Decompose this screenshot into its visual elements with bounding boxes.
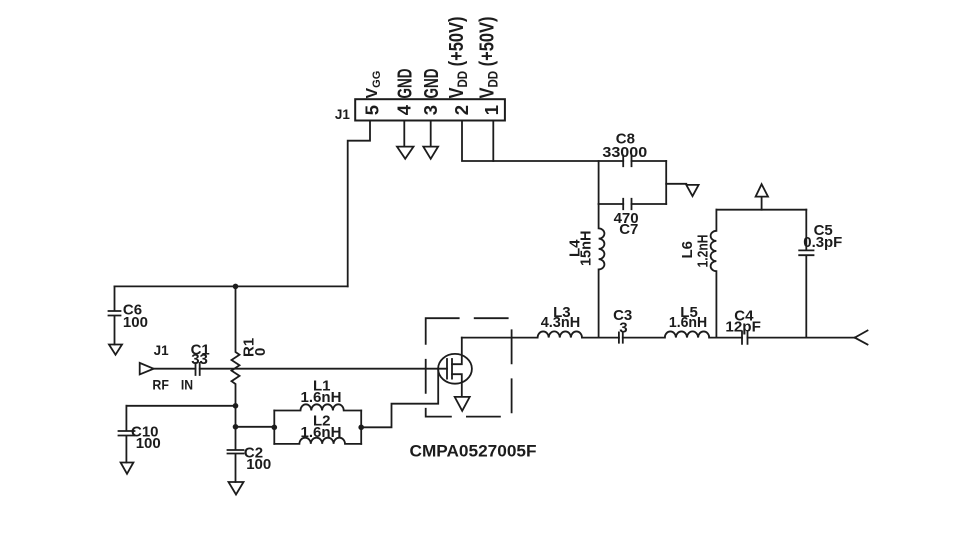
svg-text:1.6nH: 1.6nH (669, 314, 707, 331)
ground pin 3 (423, 121, 438, 159)
ground pin 4 (397, 121, 414, 159)
capacitor C8 (623, 155, 631, 166)
node R1 bottom junction (233, 403, 239, 409)
wire L1L2 right node to gate (361, 369, 438, 428)
wire VGG rail (115, 285, 348, 287)
wire pin5 to VGG rail (348, 121, 370, 287)
transistor Q1 source lead (452, 374, 462, 396)
ground transistor source (455, 397, 470, 411)
capacitor C2 (228, 427, 244, 482)
inductor L6 (711, 210, 717, 338)
wire node to L1L2 box (236, 426, 275, 428)
wire RF input line (154, 368, 447, 370)
capacitor C4 (742, 331, 748, 344)
svg-text:VDD (+50V): VDD (+50V) (446, 17, 470, 99)
svg-text:L6: L6 (679, 241, 696, 259)
connector J1 RF IN (140, 363, 154, 375)
svg-text:3: 3 (619, 319, 627, 336)
node VGG/R1 junction (233, 284, 239, 290)
svg-text:J1: J1 (335, 107, 351, 122)
wire L1L2 box left side (273, 411, 275, 444)
svg-text:VDD (+50V): VDD (+50V) (477, 17, 501, 99)
svg-text:15nH: 15nH (578, 231, 595, 266)
svg-text:2: 2 (451, 105, 472, 115)
capacitor C10 (119, 406, 135, 463)
inductor L4 (599, 204, 605, 338)
svg-text:0.3pF: 0.3pF (803, 234, 842, 251)
node L1L2 left (272, 425, 278, 431)
wire L1L2 box right side (360, 411, 362, 444)
wire pin 2 to VDD rail (462, 121, 623, 162)
wire C8 right top rail (632, 160, 667, 162)
svg-text:1.6nH: 1.6nH (301, 389, 342, 406)
ground top triangle (756, 184, 768, 210)
capacitor C6 (109, 286, 121, 344)
wire C8/C7 left side (598, 161, 600, 204)
svg-text:IN: IN (181, 377, 193, 393)
dashed package outline CMPA0527005F (426, 318, 512, 416)
svg-text:4.3nH: 4.3nH (541, 314, 581, 331)
svg-text:1.6nH: 1.6nH (301, 424, 342, 441)
svg-text:VGG: VGG (364, 71, 383, 99)
svg-text:12pF: 12pF (725, 318, 761, 335)
svg-text:GND: GND (421, 69, 443, 99)
connector J1 body (355, 99, 505, 120)
ground C10 (121, 463, 134, 474)
inductor L1 (274, 404, 361, 410)
svg-text:3: 3 (420, 105, 441, 115)
svg-text:0: 0 (252, 348, 269, 356)
wire C8/C7 right side (665, 161, 667, 204)
svg-text:100: 100 (123, 314, 148, 331)
capacitor C5 (799, 210, 813, 338)
capacitor C3 (619, 332, 623, 342)
resistor R1 (232, 286, 240, 405)
wire L6/C5 top rail (716, 209, 806, 211)
ground C6 (109, 345, 122, 355)
capacitor C7 (623, 199, 631, 209)
wire R1 node down (235, 406, 237, 427)
wire pin 1 drop (492, 121, 494, 162)
wire main output line (462, 337, 855, 339)
inductor L2 (274, 438, 361, 444)
svg-text:CMPA0527005F: CMPA0527005F (410, 441, 537, 460)
svg-text:GND: GND (395, 69, 417, 99)
inductor L3 (538, 331, 582, 337)
wire gnd stub C8/C7 (666, 183, 686, 185)
inductor L5 (665, 331, 709, 337)
transistor Q1 circle (438, 354, 472, 384)
svg-text:100: 100 (246, 456, 271, 473)
svg-text:33: 33 (191, 351, 208, 368)
capacitor C1 (196, 363, 200, 375)
svg-text:J1: J1 (154, 343, 170, 358)
svg-text:4: 4 (394, 104, 415, 115)
svg-text:RF: RF (152, 377, 169, 393)
ground C2 (229, 482, 244, 495)
transistor Q1 channel bar (451, 359, 453, 379)
svg-text:5: 5 (361, 105, 382, 115)
svg-text:33000: 33000 (602, 144, 647, 161)
transistor Q1 gate bar (446, 359, 448, 379)
wire C7 bottom rail (599, 203, 667, 205)
ground C8/C7 (686, 185, 698, 196)
svg-text:C7: C7 (619, 221, 638, 238)
transistor Q1 drain lead (452, 338, 462, 365)
svg-text:100: 100 (136, 435, 161, 452)
svg-text:1.2nH: 1.2nH (695, 235, 712, 268)
node L1L2 right (358, 425, 364, 431)
connector RF OUT chevron (855, 331, 868, 345)
wire R1 node to C10 (126, 405, 235, 407)
node C2/L1L2 junction (233, 424, 239, 430)
svg-text:1: 1 (481, 105, 502, 115)
